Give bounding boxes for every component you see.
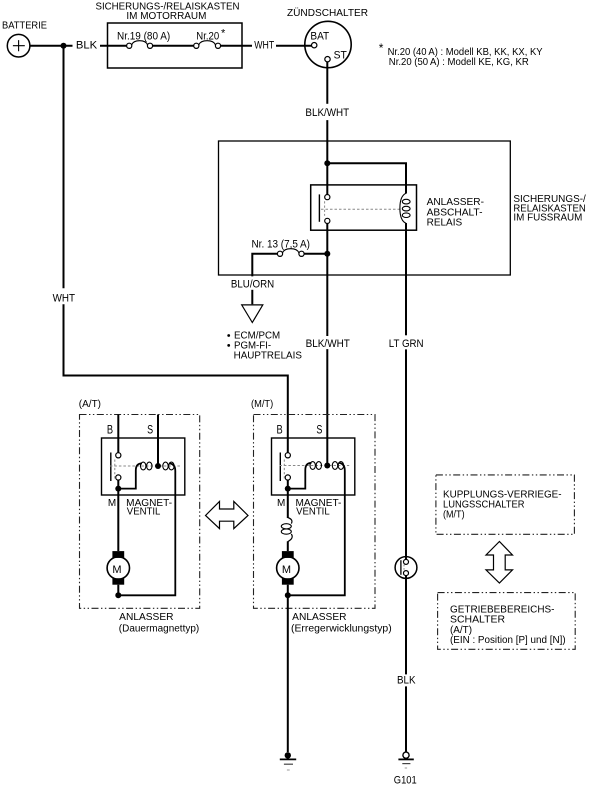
label MAGNETVENTIL (M/T) bbox=[296, 498, 342, 518]
svg-text:(Dauermagnettyp): (Dauermagnettyp) bbox=[119, 624, 199, 635]
valve contact bar (A/T) bbox=[110, 453, 112, 482]
wire field coil to motor (M/T) bbox=[287, 541, 289, 551]
wire WHT to starter B terminal bbox=[64, 304, 288, 453]
svg-text:*: * bbox=[221, 28, 226, 40]
svg-text:(EIN : Position [P] und [N]): (EIN : Position [P] und [N]) bbox=[450, 635, 566, 646]
battery G1 bbox=[7, 34, 30, 57]
svg-text:BAT: BAT bbox=[310, 31, 329, 43]
wire fuse 20 to WHT label bbox=[221, 45, 252, 47]
node motor/coil return (A/T) bbox=[115, 592, 121, 598]
svg-text:M: M bbox=[277, 498, 285, 509]
magnet valve box (A/T) bbox=[102, 438, 185, 495]
svg-text:BLK/WHT: BLK/WHT bbox=[305, 107, 349, 119]
valve coil loops (M/T) bbox=[310, 462, 344, 470]
svg-text:ZÜNDSCHALTER: ZÜNDSCHALTER bbox=[287, 7, 368, 19]
note fuse 20 variants bbox=[379, 41, 543, 68]
wire ST down (BLK/WHT) bbox=[326, 62, 328, 104]
arrow to ECM/PCM bbox=[242, 305, 263, 323]
equivalence arrow between starters bbox=[206, 501, 249, 528]
wire M node to field coil (M/T) bbox=[287, 489, 289, 518]
node M junction (M/T) bbox=[285, 486, 291, 492]
wire M node to motor (A/T) bbox=[117, 489, 119, 551]
motor M2 (M/T) bbox=[277, 551, 299, 585]
svg-text:HAUPTRELAIS: HAUPTRELAIS bbox=[234, 351, 303, 362]
node coil/S junction (A/T) bbox=[155, 463, 161, 469]
ground starter (M/T) bbox=[280, 752, 296, 770]
valve contact terminals (M/T) bbox=[285, 453, 290, 458]
svg-text:IM MOTORRAUM: IM MOTORRAUM bbox=[126, 11, 206, 22]
svg-text:(Erregerwicklungstyp): (Erregerwicklungstyp) bbox=[291, 624, 392, 635]
valve contact terminals (A/T) bbox=[116, 453, 121, 458]
svg-text:ST: ST bbox=[334, 49, 347, 61]
wire contact to M node (M/T) bbox=[287, 480, 289, 489]
starter box M/T dash-dot bbox=[254, 415, 376, 609]
svg-text:RELAIS: RELAIS bbox=[427, 218, 463, 229]
svg-text:M: M bbox=[108, 498, 116, 509]
node battery junction bbox=[61, 43, 67, 49]
label fuse box title SICHERUNGS-/RELAISKASTEN IM MOTORRAUM bbox=[96, 2, 240, 22]
relay movable contact dashed bbox=[324, 201, 326, 215]
gear position switch box GETRIEBEBEREICHSSCHALTER bbox=[438, 593, 576, 650]
node motor/coil return (M/T) bbox=[285, 592, 291, 598]
svg-text:BATTERIE: BATTERIE bbox=[2, 20, 47, 31]
svg-text:(M/T): (M/T) bbox=[443, 510, 465, 521]
valve dashed link (A/T) bbox=[110, 465, 180, 467]
svg-text:ANLASSER-: ANLASSER- bbox=[427, 197, 484, 208]
svg-text:IM FUSSRAUM: IM FUSSRAUM bbox=[513, 213, 582, 224]
svg-text:BLU/ORN: BLU/ORN bbox=[231, 278, 274, 290]
relay contact terminals bbox=[325, 195, 330, 200]
ignition switch S1 bbox=[305, 21, 351, 67]
svg-text:(M/T): (M/T) bbox=[251, 399, 273, 410]
svg-text:*: * bbox=[379, 41, 384, 55]
wire fuse13 right to junction bbox=[304, 253, 327, 255]
wire B terminal stub (A/T) bbox=[117, 415, 119, 453]
node fuse13 junction bbox=[324, 251, 330, 257]
valve contact bar (M/T) bbox=[279, 453, 281, 482]
node coil/S junction (M/T) bbox=[324, 463, 330, 469]
fuse/relay box Fussraum bbox=[219, 141, 511, 275]
list ECM/PCM PGM-FI-HAUPTRELAIS bbox=[227, 331, 302, 362]
wire BLK to ground G101 bbox=[405, 686, 407, 752]
svg-text:LT GRN: LT GRN bbox=[389, 338, 424, 350]
svg-text:WHT: WHT bbox=[53, 293, 76, 305]
clutch switch box KUPPLUNGS-VERRIEGELUNGSSCHALTER bbox=[436, 475, 575, 534]
equivalence arrow vertical bbox=[486, 542, 513, 584]
wire WHT label to ignition switch bbox=[276, 45, 312, 47]
clutch interlock switch (M/T) bbox=[395, 557, 417, 579]
svg-text:M: M bbox=[282, 564, 291, 576]
fuse F13 bbox=[277, 249, 304, 257]
svg-text:G101: G101 bbox=[394, 775, 417, 787]
wire battery to BLK label bbox=[30, 45, 73, 47]
svg-text:VENTIL: VENTIL bbox=[296, 506, 330, 517]
valve movable contact dashed (A/T) bbox=[114, 460, 116, 481]
fuse box Motorraum bbox=[108, 23, 243, 68]
label ANLASSER (Dauermagnettyp) bbox=[119, 612, 199, 634]
svg-text:Nr. 13 (7,5 A): Nr. 13 (7,5 A) bbox=[252, 239, 310, 251]
relay coil bbox=[400, 193, 410, 223]
wire between fuses bbox=[153, 45, 194, 47]
ground G101 bbox=[398, 752, 413, 768]
svg-text:ANLASSER: ANLASSER bbox=[292, 612, 346, 623]
valve dashed link (M/T) bbox=[279, 465, 349, 467]
relay contact bar bbox=[318, 194, 320, 221]
wire coil return (M/T) bbox=[288, 463, 345, 595]
svg-text:WHT: WHT bbox=[254, 40, 274, 52]
svg-text:BLK/WHT: BLK/WHT bbox=[306, 338, 351, 350]
svg-text:(A/T): (A/T) bbox=[79, 399, 101, 410]
wire M node to coil entry (M/T) bbox=[288, 463, 312, 489]
wire clutch switch to BLK label bbox=[405, 576, 407, 675]
svg-text:B: B bbox=[277, 423, 283, 437]
starter box A/T dash-dot bbox=[80, 415, 200, 609]
wire BLK/WHT to starter S terminal bbox=[326, 349, 328, 465]
magnet valve box (M/T) bbox=[272, 438, 355, 495]
node junction to relay coil bbox=[324, 160, 330, 166]
svg-text:VENTIL: VENTIL bbox=[127, 506, 161, 517]
wire BLK label to fuse 19 bbox=[100, 45, 127, 47]
motor M1 (A/T) bbox=[107, 551, 129, 585]
label GETRIEBEBEREICHSSCHALTER (A/T) bbox=[450, 605, 566, 646]
label KUPPLUNGS-VERRIEGELUNGSSCHALTER (M/T) bbox=[443, 490, 562, 521]
wire motor to bottom node (M/T) bbox=[287, 585, 289, 596]
wire S terminal stub (A/T) bbox=[157, 415, 159, 467]
fuse F20 bbox=[194, 41, 221, 49]
wire junction to relay coil bbox=[327, 163, 406, 193]
field winding (M/T) bbox=[281, 518, 292, 542]
wire BLK/WHT into relay contact bbox=[326, 120, 328, 194]
svg-text:S: S bbox=[316, 423, 322, 437]
fuse F19 bbox=[127, 41, 153, 49]
wire motor to bottom node (A/T) bbox=[117, 585, 119, 596]
label ANLASSER (Erregerwicklungstyp) bbox=[291, 612, 392, 634]
label SICHERUNGS-/RELAISKASTEN IM FUSSRAUM bbox=[513, 194, 586, 224]
svg-text:M: M bbox=[112, 564, 121, 576]
svg-text:BLK: BLK bbox=[76, 40, 98, 52]
valve movable contact dashed (M/T) bbox=[283, 460, 285, 481]
wire contact to M node (A/T) bbox=[117, 480, 119, 489]
svg-text:Nr.20 (50 A) : Modell KE, KG,: Nr.20 (50 A) : Modell KE, KG, KR bbox=[389, 56, 529, 68]
wire M node to coil entry (A/T) bbox=[118, 463, 142, 488]
svg-text:S: S bbox=[147, 423, 153, 437]
wire relay contact down to BLK/WHT label bbox=[326, 224, 328, 337]
relay K1 box bbox=[311, 185, 417, 230]
relay actuator dashed link bbox=[321, 208, 400, 210]
node M junction (A/T) bbox=[115, 486, 121, 492]
svg-text:B: B bbox=[107, 423, 113, 437]
wire starter M/T to ground bbox=[287, 595, 289, 752]
label MAGNETVENTIL (A/T) bbox=[126, 498, 172, 518]
wire coil return (A/T) bbox=[118, 463, 175, 595]
valve coil loops (A/T) bbox=[141, 462, 175, 470]
svg-text:BLK: BLK bbox=[397, 675, 416, 687]
wire BLU/ORN to arrow bbox=[251, 290, 253, 305]
wire fuse13 left and down (BLU/ORN) bbox=[252, 254, 277, 277]
wire WHT left vertical bbox=[63, 46, 65, 289]
svg-text:ANLASSER: ANLASSER bbox=[119, 612, 173, 623]
wire relay coil down to LT GRN label bbox=[405, 223, 407, 335]
label ANLASSER-ABSCHALT-RELAIS bbox=[427, 197, 484, 229]
wire LT GRN to clutch switch bbox=[405, 349, 407, 559]
